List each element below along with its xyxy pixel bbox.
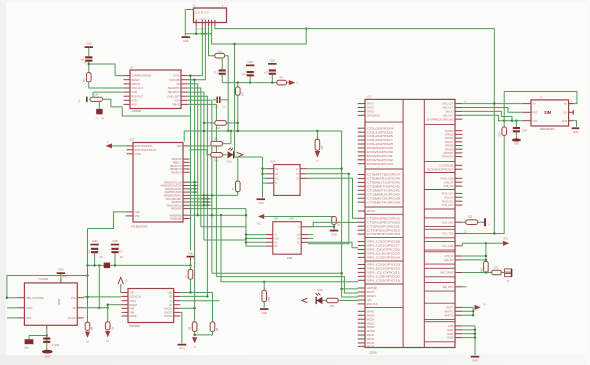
wire mid vertical x236 from y44 (235, 44, 263, 157)
svg-text:GND: GND (86, 42, 92, 46)
svg-text:MIC2P: MIC2P (367, 334, 375, 337)
svg-text:LED1: LED1 (226, 161, 232, 163)
wire VCC rail to R18 (264, 216, 334, 218)
svg-text:SIMLOCK400: SIMLOCK400 (540, 128, 555, 131)
svg-text:VAD_BH: VAD_BH (444, 259, 454, 262)
svg-text:GND: GND (58, 268, 64, 272)
ground GND bottom right (471, 356, 480, 358)
svg-text:SPI_CLKGPIO25: SPI_CLKGPIO25 (367, 253, 401, 256)
svg-text:GPIO07: GPIO07 (445, 141, 454, 144)
svg-text:GND: GND (270, 58, 276, 62)
svg-text:GND: GND (188, 252, 194, 255)
wire R1 to IC1 (89, 82, 124, 88)
svg-text:RAMDNB2: RAMDNB2 (170, 218, 182, 221)
svg-text:R11: R11 (218, 50, 223, 53)
svg-text:TXD: TXD (71, 297, 76, 300)
svg-text:CAP/REGSENSE: CAP/REGSENSE (132, 74, 152, 78)
svg-text:CEOV1216: CEOV1216 (130, 296, 142, 299)
svg-text:MIC3B: MIC3B (367, 346, 375, 349)
wire SIM top loop (504, 92, 577, 104)
svg-text:COL1GPIO25: COL1GPIO25 (367, 131, 394, 134)
wire IC3 left rail (262, 157, 264, 183)
svg-text:GND2: GND2 (179, 348, 186, 350)
wire R6 down to MOP2528 pin1 (190, 279, 192, 292)
svg-text:CLK: CLK (563, 111, 568, 114)
IC4 right wires to big IC (308, 234, 313, 236)
svg-text:GPIO0RT: GPIO0RT (443, 152, 454, 155)
wire pin4 down to R11 (209, 26, 215, 56)
svg-text:GND: GND (183, 39, 189, 43)
op-amp IC1 codec box (130, 70, 181, 109)
connector X2 battery (501, 272, 504, 274)
LED LED1 (222, 154, 226, 156)
svg-text:ROW3GPIO32: ROW3GPIO32 (367, 159, 394, 162)
svg-text:VGB_DM: VGB_DM (443, 185, 453, 188)
IC SIM pins left (523, 103, 531, 105)
wire pin2 down to IC1 DATA (188, 26, 203, 75)
svg-text:VD: VD (176, 82, 180, 86)
IC U3 pins left bottom VDD VSS (127, 211, 134, 213)
resistor R10 below junction (237, 83, 239, 87)
svg-text:CTSMBE2GPIO40: CTSMBE2GPIO40 (367, 193, 401, 196)
IC3 logic gate box IC1A (274, 165, 300, 196)
resistor R5 drop x212.5 (212, 293, 214, 322)
IC U3 pins right (183, 145, 190, 147)
svg-text:10K: 10K (240, 92, 243, 97)
resistor R14 row (190, 145, 211, 147)
svg-text:VDD: VDD (177, 145, 182, 148)
svg-text:VCC: VCC (257, 223, 262, 226)
svg-text:GND: GND (514, 143, 519, 146)
svg-text:DRIVE: DRIVE (172, 103, 180, 107)
svg-text:BAT_RTC: BAT_RTC (443, 286, 454, 289)
arrow VCC into IC4 area (258, 214, 264, 219)
svg-text:COL2GPIO26: COL2GPIO26 (367, 135, 394, 138)
ground GND at SIM right (573, 121, 576, 127)
svg-text:R17: R17 (320, 146, 323, 151)
svg-text:CTSP3SGPIO52: CTSP3SGPIO52 (367, 229, 401, 232)
rails A and B to big IC UART pins (212, 272, 342, 274)
svg-text:ROW4GPIO33: ROW4GPIO33 (367, 163, 394, 166)
svg-text:GND0: GND0 (447, 337, 454, 340)
svg-text:VCC_DVB: VCC_DVB (442, 245, 454, 248)
svg-text:MIC1B: MIC1B (367, 318, 375, 321)
resistor R21 right (502, 127, 507, 136)
svg-text:GAIN_SET: GAIN_SET (167, 94, 180, 98)
svg-text:GND: GND (62, 277, 67, 279)
svg-text:1 2 3 4 5 6: 1 2 3 4 5 6 (196, 19, 206, 21)
svg-text:MODE: MODE (130, 315, 137, 318)
wire IC1 pin5 row (93, 91, 124, 93)
IC MOP2528 box (128, 289, 174, 323)
svg-text:AN: AN (169, 304, 173, 307)
svg-text:HEADPH2: HEADPH2 (168, 90, 180, 94)
IC CC606 right column dividers (424, 124, 455, 126)
svg-text:GPIO7: GPIO7 (367, 107, 375, 110)
svg-text:AUX_ADC: AUX_ADC (442, 221, 453, 224)
resistor R17 drop to Y1 arrow (316, 131, 318, 139)
resistor drop x87.5 with arrow (85, 322, 90, 330)
svg-text:ADD: ADD (132, 103, 137, 107)
VCC arrow row (461, 243, 463, 246)
wire R10 down to rail131 (237, 95, 239, 131)
svg-text:MIC2N: MIC2N (367, 338, 375, 341)
svg-text:CC606: CC606 (369, 351, 377, 355)
BAT_RTC stub wire (462, 286, 466, 288)
svg-text:SIM_IO: SIM_IO (445, 111, 453, 114)
capacitor C12 (221, 58, 223, 69)
svg-text:DCOGPIO08: DCOGPIO08 (440, 164, 454, 167)
svg-text:GPIO5: GPIO5 (367, 103, 375, 106)
svg-text:GND: GND (45, 355, 51, 358)
svg-text:BSTTYIOGPIO8: BSTTYIOGPIO8 (135, 145, 153, 148)
svg-text:SPI_CS4GPIO20: SPI_CS4GPIO20 (367, 275, 401, 278)
resistor R11 (215, 53, 225, 58)
svg-text:GND2: GND2 (447, 329, 454, 332)
wire pin3 down to IC1 CRC (188, 26, 206, 79)
svg-text:EXPREGGPIO16: EXPREGGPIO16 (427, 118, 454, 121)
IC1 right fanout bus to verticals (188, 76, 191, 251)
svg-text:PHB: PHB (448, 325, 453, 328)
ground GND under JP1 (182, 36, 191, 38)
svg-text:BAC_TEMP: BAC_TEMP (441, 272, 454, 275)
svg-text:COL0GPIO24: COL0GPIO24 (367, 127, 394, 130)
wire MODE pin to ground (180, 312, 182, 343)
LED2 row to big IC (302, 298, 308, 303)
svg-text:P?L-89LPC9XX: P?L-89LPC9XX (131, 225, 148, 228)
svg-text:GND: GND (247, 60, 253, 64)
BAC_TEMP row with NTC (462, 272, 491, 274)
IC CC606 outer box (365, 99, 455, 347)
TXC pins left (18, 297, 24, 299)
svg-text:VCC: VCC (533, 120, 538, 123)
wire gnd to C1 (88, 48, 90, 56)
svg-text:SPI_CS2GPIO24: SPI_CS2GPIO24 (367, 257, 401, 260)
connector JP1 pins (195, 23, 197, 27)
svg-text:OSC OUT: OSC OUT (132, 86, 144, 90)
AUX_ADC row with resistor R23 (462, 221, 466, 223)
svg-text:10K: 10K (83, 78, 86, 83)
wire pin6 long top rail to SIM area (215, 26, 494, 103)
svg-text:TON: TON (174, 98, 179, 102)
svg-text:GPIOQRCB: GPIOQRCB (367, 114, 380, 117)
TXC bottom pin and caps (46, 325, 48, 329)
wire rail y265.4 (88, 264, 191, 266)
TXC left loop wire (7, 276, 88, 298)
svg-text:PVIN: PVIN (132, 98, 138, 102)
svg-text:COL3GPIO27: COL3GPIO27 (367, 139, 394, 142)
IC3 left pin wires (263, 168, 268, 170)
svg-text:PCM_IN: PCM_IN (444, 196, 453, 199)
IC SIM pins right (569, 103, 574, 105)
wire vertical x99.3 down to TXC SD row (98, 265, 100, 307)
svg-text:PVR: PVR (130, 307, 135, 310)
IC MOP2528 pins right (174, 292, 181, 294)
wire branch to IC1 pin1 (89, 64, 124, 76)
IC MOP2528 pins left (122, 292, 129, 294)
connector JP1 box (194, 8, 227, 23)
svg-text:SPI_CLGPIO21: SPI_CLGPIO21 (367, 272, 401, 275)
wire loop rail y281.8 (221, 215, 358, 282)
svg-text:SPH2P: SPH2P (367, 326, 375, 329)
IC U3 89LPC box (133, 143, 183, 223)
svg-text:SPH2N: SPH2N (367, 330, 375, 333)
resistor R4 drop x194.6 (194, 308, 196, 322)
svg-text:IC1A: IC1A (270, 160, 275, 163)
capacitor C15 pair (213, 99, 216, 101)
svg-text:COL4GPIO28: COL4GPIO28 (367, 143, 394, 146)
resistor R12 and arrow VD (277, 80, 287, 85)
svg-text:GND: GND (331, 232, 337, 236)
svg-text:GPIO06: GPIO06 (445, 137, 454, 140)
VBATT rows with arrow (462, 306, 473, 308)
svg-text:1K: 1K (185, 275, 188, 278)
IC4 logic gate box IC1B (273, 222, 301, 255)
resistor TK from LED row to IC2 pin (237, 157, 239, 181)
svg-text:UAB: UAB (289, 218, 294, 221)
svg-text:VCC_TCB: VCC_TCB (442, 233, 453, 236)
svg-text:ROW0GPIO29: ROW0GPIO29 (367, 147, 394, 150)
wire v485.9 with resistor R22 (485, 243, 487, 261)
IC SIM box (531, 100, 569, 126)
svg-text:GPIO0RT2: GPIO0RT2 (442, 156, 454, 159)
svg-text:SPI_CS5GPIO19: SPI_CS5GPIO19 (367, 279, 401, 282)
wire vertical x494 down (493, 104, 495, 234)
svg-text:RST: RST (533, 111, 538, 114)
svg-text:VDD: VDD (167, 292, 172, 295)
svg-text:PCM_CLK: PCM_CLK (442, 200, 454, 203)
IC U3 pins left top (127, 145, 134, 147)
svg-text:GND: GND (261, 311, 267, 315)
svg-text:GHD_IN: GHD_IN (444, 255, 453, 258)
svg-text:SNC_SCT: SNC_SCT (442, 107, 454, 110)
svg-text:GND: GND (112, 239, 118, 243)
svg-text:POP OUT: POP OUT (132, 94, 144, 98)
svg-text:VBATTD: VBATTD (444, 314, 453, 317)
ground GND under TXC (42, 350, 53, 354)
wire R11 right down rail (225, 56, 229, 131)
svg-text:GPIO2: GPIO2 (367, 111, 375, 114)
arrow into IC2 pin1 (106, 143, 113, 148)
arrow up VCC to MOP2528 pin1 (118, 277, 123, 284)
SIM right pin2 end mark (572, 110, 574, 115)
IC CC606 right section boxes (424, 217, 455, 219)
svg-text:BSTTY1EGPTCLO2: BSTTY1EGPTCLO2 (135, 149, 157, 152)
IC CC606 left pins and labels (358, 103, 365, 105)
svg-text:VBATTC: VBATTC (444, 310, 453, 313)
wire rail y214.5 from IC2 (190, 214, 247, 216)
svg-text:GND: GND (92, 239, 98, 243)
svg-text:MIC1N: MIC1N (367, 322, 375, 325)
svg-text:R19: R19 (267, 297, 270, 302)
svg-text:SPI_CS1GPIO27: SPI_CS1GPIO27 (367, 245, 401, 248)
svg-text:CTSMBTE1GPIO44: CTSMBTE1GPIO44 (367, 178, 401, 181)
svg-text:GND2: GND2 (59, 298, 61, 305)
svg-text:TK: TK (232, 187, 235, 190)
svg-text:MBOUMD: MBOUMD (171, 208, 182, 211)
wire JP1 left to ground (185, 10, 193, 36)
svg-text:VDD: VDD (130, 292, 135, 295)
GND rows to ground (462, 325, 475, 327)
capacitor C16 at SIM (515, 121, 517, 127)
svg-text:J1 J3 J5 J7 J9: J1 J3 J5 J7 J9 (195, 13, 209, 15)
svg-text:ROW2GPIO31: ROW2GPIO31 (367, 155, 394, 158)
IC4 left wires (246, 234, 266, 236)
svg-text:CTSP2SPGPIO51: CTSP2SPGPIO51 (367, 225, 401, 228)
svg-text:NTC: NTC (494, 267, 499, 269)
EMD rows (462, 255, 486, 257)
IC CC606 right pins and labels (455, 103, 462, 105)
wire cap rail (29, 335, 47, 337)
wire vertical x504 down (503, 92, 505, 128)
svg-text:GND: GND (258, 201, 264, 205)
svg-text:SIM_VCC: SIM_VCC (443, 114, 454, 117)
svg-text:OSO1: OSO1 (130, 300, 137, 303)
svg-text:SPI_CS3GPIO23: SPI_CS3GPIO23 (367, 264, 401, 267)
capacitor C1 22p (85, 56, 92, 58)
wire joining resistor bottoms (195, 332, 213, 335)
arrow right of LED (237, 152, 243, 157)
svg-text:VSS: VSS (135, 215, 140, 218)
svg-text:RESET: RESET (132, 78, 141, 82)
svg-text:HVD2: HVD2 (26, 307, 33, 310)
IC CC606 left column dividers (365, 121, 403, 123)
svg-text:PCM_OUT: PCM_OUT (442, 204, 454, 207)
IC2b right wires (180, 292, 212, 294)
svg-text:HVD2: HVD2 (135, 153, 142, 156)
svg-text:BADC0: BADC0 (165, 307, 173, 310)
svg-text:CTSMBT3GPIO39: CTSMBT3GPIO39 (367, 197, 401, 200)
svg-text:IC1B: IC1B (287, 257, 292, 260)
svg-text:ROADGPIO07: ROADGPIO07 (427, 168, 454, 171)
TXC right wires (84, 296, 122, 298)
svg-text:RESET: RESET (130, 304, 138, 307)
wire JP1 pin rail (185, 33, 211, 35)
svg-text:EN: EN (169, 296, 173, 299)
svg-text:SBT: SBT (274, 218, 279, 221)
svg-text:TXC4069: TXC4069 (38, 278, 49, 281)
svg-text:ROW1GPIO30: ROW1GPIO30 (367, 151, 394, 154)
svg-text:CTSMBTTGPIO41: CTSMBTTGPIO41 (367, 189, 401, 192)
svg-text:SD: SD (73, 307, 77, 310)
wire D1 to elbow (103, 99, 191, 116)
svg-text:J-4066-B: J-4066-B (132, 110, 142, 113)
svg-text:GND3: GND3 (447, 333, 454, 336)
wire IC2 bottom pin to left rail (88, 212, 127, 229)
svg-text:GND: GND (573, 130, 579, 134)
ground GND under R18 (330, 230, 339, 232)
svg-text:GND: GND (132, 90, 138, 94)
svg-text:THR: THR (130, 312, 135, 315)
svg-text:PD: PD (564, 103, 568, 106)
IC3 right wires to verticals (307, 168, 342, 170)
svg-text:RESET1: RESET1 (367, 295, 377, 298)
svg-text:CTSMBT4GPIO38: CTSMBT4GPIO38 (367, 201, 401, 204)
svg-text:100n: 100n (24, 347, 30, 349)
svg-text:CTSMBTTEDGPIO4: CTSMBTTEDGPIO4 (367, 174, 401, 177)
resistor drop x107.7 with arrow (107, 305, 109, 322)
svg-text:GPIO08: GPIO08 (445, 145, 454, 148)
wire C1 to R1 (88, 62, 90, 73)
svg-text:PCM_SYN: PCM_SYN (442, 193, 454, 196)
svg-text:BADC1: BADC1 (165, 312, 173, 315)
wire vertical x87.5 down to TXC resistor (87, 229, 89, 323)
svg-text:HD1: HD1 (130, 139, 135, 142)
svg-text:VGB_DF: VGB_DF (444, 181, 454, 184)
resistor R15 LED row (190, 150, 211, 155)
svg-text:RVD: RVD (26, 317, 31, 320)
svg-text:SPI_CS0GPIO28: SPI_CS0GPIO28 (367, 241, 401, 244)
svg-text:DATA: DATA (173, 74, 180, 78)
svg-text:IRODT: IRODT (367, 291, 375, 294)
svg-text:SIM: SIM (544, 110, 552, 115)
svg-text:UART/DP: UART/DP (367, 287, 378, 290)
wire pin5 bus right (212, 26, 307, 44)
svg-text:CTSMB1T1GPIO43: CTSMB1T1GPIO43 (367, 182, 401, 185)
wire rail y131 (184, 130, 341, 132)
wire LED vertical to rail131 (230, 131, 232, 144)
svg-text:CRC/MB: CRC/MB (170, 78, 180, 82)
svg-text:GPIO04: GPIO04 (445, 130, 454, 133)
svg-text:SPI_DO2GPIO22: SPI_DO2GPIO22 (367, 268, 401, 271)
svg-text:CTSMBET0GPIO42: CTSMBET0GPIO42 (367, 185, 401, 188)
svg-text:SPI_DOGPIO26: SPI_DOGPIO26 (367, 249, 401, 252)
svg-text:MBOECO: MBOECO (171, 171, 181, 174)
svg-text:IR32_CLK: IR32_CLK (367, 303, 378, 306)
svg-text:OSC IN: OSC IN (132, 82, 141, 86)
capacitor C10 (25, 339, 34, 344)
svg-text:10nF: 10nF (522, 131, 528, 133)
svg-text:CTSP0SPEDGPIO5: CTSP0SPEDGPIO5 (367, 217, 401, 220)
wires big IC to SIM (462, 103, 523, 105)
IC1 pins left (124, 75, 131, 77)
svg-text:ALGND: ALGND (68, 317, 76, 320)
resistor R1 10K (87, 73, 92, 82)
wire rail131 corner down to UART pin (342, 131, 358, 297)
svg-text:LED: LED (367, 299, 372, 302)
svg-text:GPIO05: GPIO05 (445, 134, 454, 137)
svg-text:VD3: VD3 (274, 238, 279, 241)
resistor R19 drop with ground (263, 282, 265, 291)
svg-text:VCC: VCC (503, 237, 508, 240)
capacitor C9 square on rail (104, 263, 110, 269)
resistor R13 (215, 121, 227, 126)
arrow down supply (192, 337, 197, 343)
svg-text:BADC2: BADC2 (165, 315, 173, 318)
rail y82.6 (222, 82, 289, 84)
IC1 pins right (181, 75, 188, 77)
svg-text:HEADPH1: HEADPH1 (168, 86, 180, 90)
ground GND under IC3 (262, 183, 264, 198)
wire ladder horizontal joins (201, 226, 246, 228)
svg-text:22R: 22R (499, 132, 502, 137)
IC2b left wires (108, 304, 122, 306)
svg-text:R22: R22 (480, 267, 483, 272)
svg-text:4.7u/63: 4.7u/63 (52, 345, 60, 347)
capacitor C2 small square (96, 109, 102, 114)
svg-text:LED2: LED2 (317, 290, 323, 292)
svg-text:GNC_CLK: GNC_CLK (442, 103, 454, 106)
TXC pins right (77, 297, 83, 299)
svg-text:I/O: I/O (533, 103, 536, 106)
rail y233.9 to VCC_TCB (462, 233, 504, 235)
svg-text:HYNO_AGB: HYNO_AGB (440, 177, 454, 180)
svg-text:CTSPBSPGPIO53: CTSPBSPGPIO53 (367, 233, 401, 236)
resistor R6 inline (190, 265, 192, 269)
capacitor C11 (43, 338, 50, 340)
TXC top pin to ground (60, 279, 62, 283)
svg-text:GPIO34: GPIO34 (367, 210, 376, 213)
